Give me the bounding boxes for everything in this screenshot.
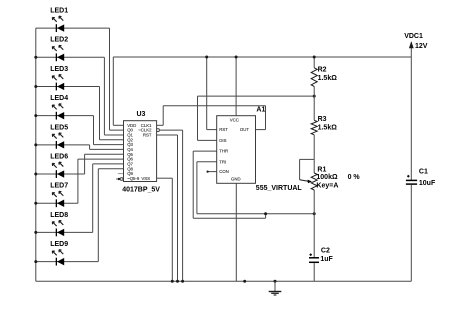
svg-text:A1: A1 bbox=[256, 107, 265, 114]
svg-text:LED8: LED8 bbox=[50, 212, 68, 219]
svg-text:R2: R2 bbox=[318, 66, 327, 73]
svg-text:THR: THR bbox=[219, 149, 228, 154]
svg-text:LED7: LED7 bbox=[50, 183, 68, 190]
svg-text:LED6: LED6 bbox=[50, 153, 68, 160]
svg-text:GND: GND bbox=[231, 176, 241, 181]
svg-text:0 %: 0 % bbox=[348, 174, 361, 181]
svg-text:RST: RST bbox=[143, 133, 152, 138]
svg-text:LED1: LED1 bbox=[50, 8, 68, 15]
svg-text:12V: 12V bbox=[415, 43, 428, 50]
svg-text:R1: R1 bbox=[317, 166, 326, 173]
svg-text:LED4: LED4 bbox=[50, 95, 68, 102]
svg-text:1uF: 1uF bbox=[320, 256, 333, 263]
svg-text:555_VIRTUAL: 555_VIRTUAL bbox=[256, 185, 303, 192]
svg-text:LED5: LED5 bbox=[50, 124, 68, 131]
svg-text:1.5kΩ: 1.5kΩ bbox=[318, 125, 338, 132]
svg-text:10uF: 10uF bbox=[419, 180, 436, 187]
svg-text:VCC: VCC bbox=[230, 118, 239, 123]
svg-text:RST: RST bbox=[219, 127, 228, 132]
svg-text:VDC1: VDC1 bbox=[404, 33, 423, 40]
svg-text:Key=A: Key=A bbox=[316, 183, 338, 190]
svg-text:100kΩ: 100kΩ bbox=[316, 174, 338, 181]
svg-text:LED2: LED2 bbox=[50, 37, 68, 44]
svg-text:1.5kΩ: 1.5kΩ bbox=[318, 75, 338, 82]
svg-text:VSS: VSS bbox=[141, 176, 150, 181]
svg-text:C2: C2 bbox=[321, 248, 330, 255]
svg-text:DIS: DIS bbox=[219, 138, 226, 143]
svg-text:R3: R3 bbox=[318, 116, 327, 123]
svg-text:TRI: TRI bbox=[219, 159, 226, 164]
svg-text:~Q5-9: ~Q5-9 bbox=[127, 176, 140, 181]
svg-text:4017BP_5V: 4017BP_5V bbox=[122, 187, 160, 194]
svg-text:LED3: LED3 bbox=[50, 66, 68, 73]
svg-text:CON: CON bbox=[219, 169, 229, 174]
svg-text:U3: U3 bbox=[137, 111, 146, 118]
svg-text:OUT: OUT bbox=[240, 127, 249, 132]
svg-text:LED9: LED9 bbox=[50, 241, 68, 248]
svg-text:C1: C1 bbox=[419, 169, 428, 176]
